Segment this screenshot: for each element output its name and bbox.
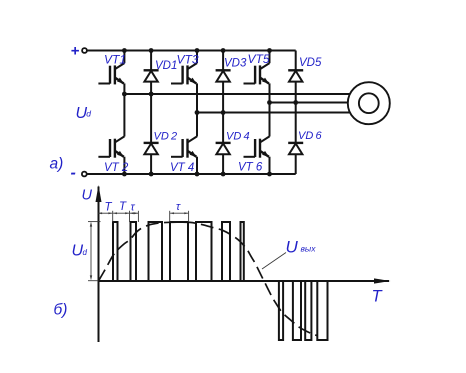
PWM positive pulse 1 [113, 222, 118, 281]
svg-text:VD5: VD5 [299, 57, 322, 69]
wire VT1 emitter to node [123, 83, 125, 94]
wire - rail (bottom DC bus) [87, 173, 296, 175]
svg-text:VD3: VD3 [224, 58, 247, 70]
wire VT6 emitter to - rail [269, 157, 271, 174]
diode VD6 [288, 143, 303, 154]
wire VD1 anode to node [150, 82, 152, 95]
svg-text:VD 6: VD 6 [298, 130, 322, 142]
svg-text:б): б) [54, 302, 68, 319]
wire VD5 cathode to + rail [295, 51, 297, 71]
wire VD5 anode to node [295, 82, 297, 103]
wire VT3 collector to + rail [196, 51, 198, 64]
U axis arrowhead [96, 185, 102, 202]
wire VD3 cathode to + rail [222, 51, 224, 71]
dashed sine Uvyx (fundamental output voltage) [99, 222, 318, 336]
PWM negative pulse 2 [293, 281, 301, 340]
svg-text:+: + [71, 43, 80, 60]
transistor VT4 [171, 136, 197, 157]
transistor VT2 [98, 136, 124, 157]
wire VT1 collector to + rail [123, 51, 125, 64]
svg-text:VT5: VT5 [248, 52, 270, 66]
motor M (outer circle) [348, 82, 390, 124]
svg-text:d: d [83, 248, 88, 257]
PWM positive pulse 7 [241, 222, 244, 281]
svg-text:VT3: VT3 [177, 53, 199, 67]
T axis arrowhead [374, 278, 391, 283]
svg-text:VT1: VT1 [104, 53, 126, 67]
junction dots [122, 48, 298, 176]
PWM positive pulse 6 [222, 222, 230, 281]
terminal - (input) [82, 172, 87, 177]
wire node to VD2 cathode [150, 94, 152, 143]
wire VT2 emitter to - rail [123, 157, 125, 174]
wire phase B output (legs VT3/VD3 to motor) [197, 112, 352, 114]
PWM positive pulse 5 [196, 222, 212, 281]
transistor VT1 [98, 63, 124, 84]
svg-text:VD 2: VD 2 [154, 131, 178, 143]
wire VD1 cathode to + rail [150, 51, 152, 71]
dimension Ud amplitude [88, 222, 101, 281]
PWM positive pulse 2 [131, 222, 137, 281]
wire + rail (top DC bus) [87, 50, 296, 52]
leader line to Uvyx label [262, 253, 286, 270]
wire node to VT2 collector [123, 94, 125, 137]
wire VT5 emitter to node [269, 83, 271, 102]
wire VT4 emitter to - rail [196, 157, 198, 174]
transistor VT5 [244, 63, 270, 84]
svg-text:VT 2: VT 2 [104, 162, 129, 174]
wire VD3 anode to node [222, 82, 224, 113]
diode VD3 [216, 70, 231, 81]
wire VT5 collector to + rail [269, 51, 271, 64]
svg-text:T: T [119, 201, 127, 213]
svg-text:VD1: VD1 [155, 60, 177, 72]
svg-text:VT 4: VT 4 [170, 162, 194, 174]
transistor VT6 [244, 136, 270, 157]
transistor VT3 [171, 63, 197, 84]
svg-text:τ: τ [176, 201, 181, 213]
motor M (inner circle) [359, 93, 379, 113]
diode VD5 [288, 70, 303, 81]
svg-text:a): a) [50, 156, 64, 173]
PWM negative pulse 3 [305, 281, 311, 340]
wire phase C output (legs VT5/VD5 to motor) [270, 102, 353, 104]
diode VD4 [216, 143, 231, 154]
T axis (horizontal) [99, 280, 390, 282]
terminal + (input) [82, 48, 87, 53]
svg-text:U: U [286, 238, 299, 257]
wire phase A output (legs VT1/VD1 to motor) [124, 93, 352, 95]
svg-text:T: T [105, 202, 113, 214]
svg-text:U: U [82, 188, 93, 204]
svg-text:вых: вых [301, 244, 317, 254]
U axis (vertical) [98, 187, 100, 343]
wire VD4 anode to - rail [222, 154, 224, 174]
wire node to VD6 cathode [295, 103, 297, 144]
wire node to VT4 collector [196, 113, 198, 137]
svg-text:T: T [372, 288, 384, 306]
wire VD2 anode to - rail [150, 154, 152, 174]
svg-text:VD 4: VD 4 [226, 131, 250, 143]
svg-text:VT 6: VT 6 [238, 162, 263, 174]
svg-text:τ: τ [131, 202, 136, 214]
PWM positive pulse 4 [170, 222, 188, 281]
diode VD2 [144, 143, 159, 154]
PWM negative pulse 4 [317, 281, 327, 340]
svg-text:-: - [71, 165, 76, 182]
wire VT3 emitter to node [196, 83, 198, 112]
wire node to VD4 cathode [222, 113, 224, 144]
diode VD1 [144, 70, 159, 81]
wire VD6 anode to - rail [295, 154, 297, 174]
PWM positive pulse 3 [149, 222, 163, 281]
svg-text:d: d [86, 109, 91, 119]
wire node to VT6 collector [269, 103, 271, 137]
PWM negative pulse 1 [279, 281, 283, 340]
dimension T / T / tau pulse spacing [98, 211, 188, 222]
